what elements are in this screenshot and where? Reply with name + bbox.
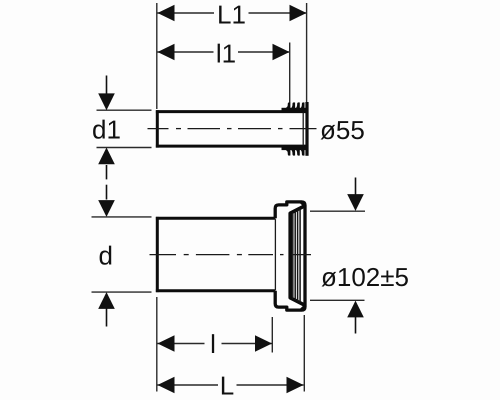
arrowhead l1 right [273,44,290,61]
d1 extension bottom [97,147,152,149]
svg-text:ø55: ø55 [320,115,365,145]
lower pipe left edge [156,217,159,292]
lower pipe bottom edge [156,289,276,292]
serration teeth bottom [285,149,304,155]
extension line left x157 bottom [156,297,158,392]
socket shoulder contour line [274,219,276,290]
extension line l1 right x290 [289,43,291,104]
arrowhead l left [158,335,175,352]
socket inner groove profile [290,206,305,306]
arrowhead l1 left [158,44,175,61]
d1/d shared arrows between pipes [106,165,108,179]
svg-text:ø102±5: ø102±5 [321,262,409,292]
dimension l line [158,343,273,345]
socket outline [275,202,305,310]
arrowhead l right [255,335,272,352]
dimension L line [158,384,304,386]
arrowhead L1 right [290,5,307,22]
arrowhead L right [287,377,304,394]
upper pipe serration bar top [282,108,307,112]
upper pipe serration bar bottom [282,146,307,150]
svg-text:d1: d1 [92,115,121,145]
upper pipe end face inner line [302,113,304,146]
d1 dimension arrow above upper pipe [106,76,108,96]
extension line l right x272 [271,317,273,353]
dimension l1 line [158,51,290,53]
extension line L1 right x307 [306,3,308,103]
upper pipe top edge [156,110,306,113]
svg-text:l1: l1 [216,39,236,69]
d1 extension top (pipe top edge extended) [97,109,152,111]
extension line left x157 top [156,3,158,109]
d extension bottom [92,291,152,293]
arrowhead L1 left [158,5,175,22]
svg-text:l: l [210,329,216,359]
d extension top (lower pipe top edge extended) [92,216,152,218]
upper pipe end face [305,102,308,156]
ø102 extension line top [310,210,365,212]
d dimension arrow below lower pipe [106,309,108,327]
lower pipe top edge [156,217,276,220]
arrowhead L left [158,377,175,394]
svg-text:L: L [220,370,234,400]
extension line L right x304 [303,315,305,392]
socket corner wedge top [299,202,305,208]
ø102 extension line bottom [310,299,365,301]
serration teeth top [285,102,304,108]
lower pipe centerline [150,254,312,256]
upper pipe bottom edge [156,145,306,148]
dimension L1 line [158,12,307,14]
ø102 arrow bottom [355,316,357,334]
svg-text:d: d [99,241,113,271]
upper pipe centerline [148,128,317,130]
svg-text:L1: L1 [217,0,246,30]
upper pipe left edge [156,110,159,147]
socket corner wedge bottom [299,304,305,310]
ø102 arrow top [355,178,357,196]
socket gasket hatch lines [293,208,300,302]
